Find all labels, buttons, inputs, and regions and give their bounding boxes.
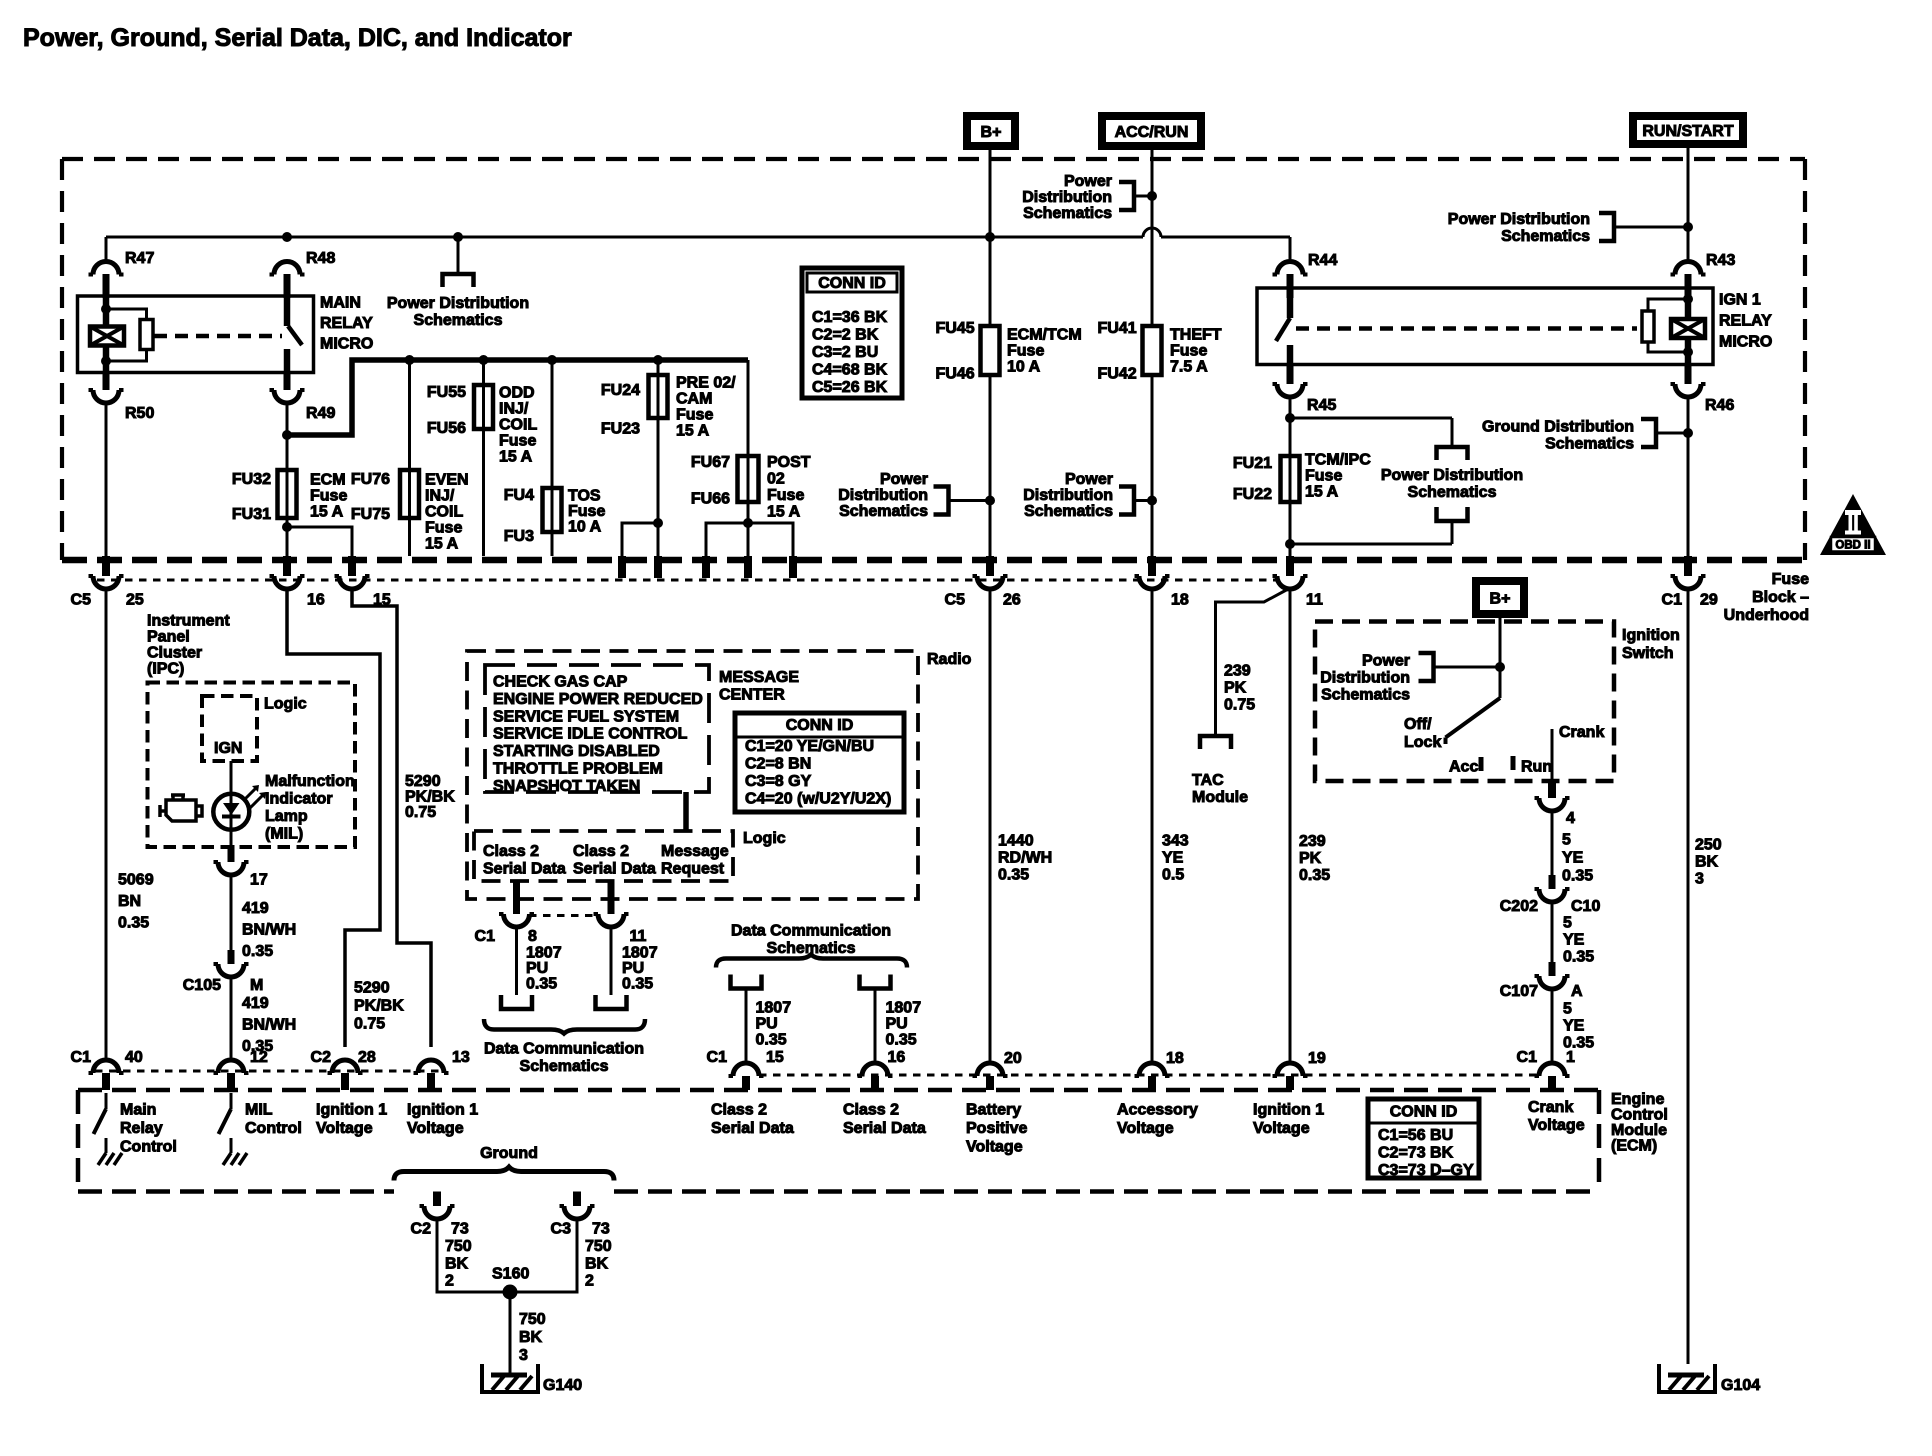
svg-text:YE: YE: [1162, 850, 1184, 867]
svg-text:R44: R44: [1308, 252, 1337, 269]
svg-text:YE: YE: [1563, 1018, 1585, 1035]
svg-text:FU67: FU67: [691, 454, 730, 471]
svg-text:Block –: Block –: [1752, 589, 1809, 606]
svg-text:C4=20 (w/U2Y/U2X): C4=20 (w/U2Y/U2X): [745, 791, 891, 808]
svg-text:Power: Power: [1065, 471, 1113, 488]
svg-text:1: 1: [1566, 1049, 1575, 1066]
svg-text:Cluster: Cluster: [147, 645, 202, 662]
svg-text:Serial Data: Serial Data: [573, 861, 656, 878]
svg-text:15 A: 15 A: [767, 504, 801, 521]
svg-text:C3=73 D–GY: C3=73 D–GY: [1378, 1162, 1474, 1179]
svg-text:Engine: Engine: [1611, 1091, 1664, 1108]
svg-text:THEFT: THEFT: [1170, 327, 1222, 344]
svg-text:Data Communication: Data Communication: [731, 923, 891, 940]
svg-text:FU55: FU55: [427, 384, 466, 401]
svg-text:Voltage: Voltage: [316, 1120, 373, 1137]
svg-text:Ignition 1: Ignition 1: [407, 1102, 478, 1119]
svg-text:FU32: FU32: [232, 471, 271, 488]
svg-text:Schematics: Schematics: [1408, 484, 1497, 501]
svg-text:Serial Data: Serial Data: [711, 1120, 794, 1137]
svg-text:FU75: FU75: [351, 506, 390, 523]
svg-text:2: 2: [445, 1273, 454, 1290]
svg-text:CENTER: CENTER: [719, 687, 785, 704]
svg-text:Control: Control: [1611, 1107, 1668, 1124]
svg-text:FU23: FU23: [601, 421, 640, 438]
svg-text:Schematics: Schematics: [1023, 205, 1112, 222]
svg-text:PU: PU: [756, 1016, 778, 1033]
svg-text:PK/BK: PK/BK: [405, 789, 455, 806]
svg-text:SERVICE IDLE CONTROL: SERVICE IDLE CONTROL: [493, 726, 688, 743]
svg-text:YE: YE: [1563, 932, 1585, 949]
svg-text:3: 3: [1695, 871, 1704, 888]
svg-text:R50: R50: [125, 405, 154, 422]
svg-text:Schematics: Schematics: [1321, 687, 1410, 704]
svg-text:Message: Message: [661, 843, 729, 860]
svg-text:18: 18: [1166, 1050, 1184, 1067]
svg-text:TAC: TAC: [1192, 772, 1224, 789]
svg-text:PK: PK: [1299, 850, 1322, 867]
svg-text:C1: C1: [707, 1049, 728, 1066]
svg-text:Accessory: Accessory: [1117, 1102, 1198, 1119]
svg-text:ACC/RUN: ACC/RUN: [1115, 124, 1189, 141]
svg-text:0.35: 0.35: [756, 1032, 787, 1049]
svg-text:C3: C3: [551, 1221, 572, 1238]
svg-text:C107: C107: [1500, 983, 1538, 1000]
svg-text:FU4: FU4: [504, 487, 534, 504]
svg-text:R48: R48: [306, 250, 335, 267]
svg-text:239: 239: [1224, 663, 1251, 680]
svg-text:Off/: Off/: [1404, 716, 1432, 733]
svg-text:Voltage: Voltage: [1253, 1120, 1310, 1137]
svg-text:R43: R43: [1706, 252, 1735, 269]
svg-text:Power: Power: [1064, 173, 1112, 190]
svg-text:15 A: 15 A: [310, 504, 344, 521]
svg-text:Run: Run: [1521, 759, 1552, 776]
svg-text:C10: C10: [1571, 898, 1600, 915]
svg-text:Control: Control: [120, 1139, 177, 1156]
svg-text:5290: 5290: [405, 773, 441, 790]
svg-text:0.35: 0.35: [118, 915, 149, 932]
svg-text:G104: G104: [1721, 1377, 1760, 1394]
svg-text:0.35: 0.35: [1299, 867, 1330, 884]
svg-text:R49: R49: [306, 405, 335, 422]
svg-text:TOS: TOS: [568, 488, 601, 505]
svg-text:C1: C1: [1662, 592, 1683, 609]
svg-text:4: 4: [1566, 810, 1575, 827]
svg-text:1807: 1807: [886, 1000, 922, 1017]
svg-text:(ECM): (ECM): [1611, 1138, 1657, 1155]
svg-text:C1: C1: [1517, 1049, 1538, 1066]
svg-text:Module: Module: [1192, 789, 1248, 806]
svg-text:Voltage: Voltage: [1117, 1120, 1174, 1137]
svg-text:SERVICE FUEL SYSTEM: SERVICE FUEL SYSTEM: [493, 708, 679, 725]
svg-text:FU56: FU56: [427, 420, 466, 437]
svg-text:5: 5: [1563, 1001, 1572, 1018]
svg-text:INJ/: INJ/: [425, 488, 455, 505]
svg-text:19: 19: [1308, 1050, 1326, 1067]
svg-text:C5: C5: [945, 592, 966, 609]
svg-text:15 A: 15 A: [425, 536, 459, 553]
svg-text:Distribution: Distribution: [838, 487, 928, 504]
svg-text:MICRO: MICRO: [320, 336, 373, 353]
svg-text:12: 12: [250, 1049, 268, 1066]
svg-text:Logic: Logic: [743, 830, 786, 847]
svg-text:750: 750: [519, 1311, 546, 1328]
svg-text:Fuse: Fuse: [568, 503, 605, 520]
svg-text:(IPC): (IPC): [147, 661, 184, 678]
svg-text:MIL: MIL: [245, 1102, 273, 1119]
svg-text:750: 750: [585, 1238, 612, 1255]
svg-text:R47: R47: [125, 250, 154, 267]
svg-text:C1: C1: [71, 1049, 92, 1066]
svg-text:MAIN: MAIN: [320, 295, 361, 312]
svg-text:C5: C5: [71, 592, 92, 609]
svg-text:A: A: [1571, 983, 1583, 1000]
svg-text:RELAY: RELAY: [320, 315, 373, 332]
svg-text:BK: BK: [519, 1329, 543, 1346]
svg-text:Malfunction: Malfunction: [265, 773, 355, 790]
svg-text:FU46: FU46: [935, 366, 974, 383]
svg-text:C2: C2: [411, 1221, 432, 1238]
svg-text:343: 343: [1162, 833, 1189, 850]
svg-text:FU66: FU66: [691, 491, 730, 508]
svg-text:Switch: Switch: [1622, 645, 1674, 662]
svg-text:Fuse: Fuse: [1170, 343, 1207, 360]
svg-text:250: 250: [1695, 837, 1722, 854]
svg-text:YE: YE: [1562, 850, 1584, 867]
svg-text:THROTTLE PROBLEM: THROTTLE PROBLEM: [493, 761, 663, 778]
svg-text:BK: BK: [1695, 854, 1719, 871]
svg-text:G140: G140: [543, 1377, 582, 1394]
svg-text:Schematics: Schematics: [1545, 436, 1634, 453]
svg-text:Fuse: Fuse: [310, 488, 347, 505]
svg-text:Distribution: Distribution: [1023, 487, 1113, 504]
svg-text:CAM: CAM: [676, 391, 712, 408]
svg-text:Lamp: Lamp: [265, 808, 308, 825]
svg-text:Ground Distribution: Ground Distribution: [1482, 419, 1634, 436]
svg-text:C2=2 BK: C2=2 BK: [812, 327, 879, 344]
svg-text:BK: BK: [585, 1255, 609, 1272]
svg-text:1440: 1440: [998, 833, 1034, 850]
svg-text:Ignition 1: Ignition 1: [316, 1102, 387, 1119]
svg-text:RUN/START: RUN/START: [1642, 123, 1733, 140]
svg-text:10 A: 10 A: [1007, 359, 1041, 376]
svg-text:C3=8 GY: C3=8 GY: [745, 773, 812, 790]
svg-text:Power Distribution: Power Distribution: [1448, 211, 1590, 228]
svg-text:R46: R46: [1705, 397, 1734, 414]
svg-text:C1=20 YE/GN/BU: C1=20 YE/GN/BU: [745, 738, 874, 755]
svg-text:40: 40: [125, 1049, 143, 1066]
svg-text:1807: 1807: [756, 1000, 792, 1017]
svg-text:28: 28: [358, 1049, 376, 1066]
svg-text:SNAPSHOT TAKEN: SNAPSHOT TAKEN: [493, 778, 640, 795]
svg-text:(MIL): (MIL): [265, 826, 303, 843]
svg-text:Indicator: Indicator: [265, 791, 333, 808]
svg-text:PK/BK: PK/BK: [354, 998, 404, 1015]
svg-text:FU41: FU41: [1097, 320, 1136, 337]
svg-text:Request: Request: [661, 861, 725, 878]
svg-text:B+: B+: [981, 124, 1002, 141]
svg-text:Positive: Positive: [966, 1120, 1027, 1137]
svg-text:EVEN: EVEN: [425, 472, 469, 489]
svg-text:CONN ID: CONN ID: [818, 275, 886, 292]
svg-text:7.5 A: 7.5 A: [1170, 359, 1208, 376]
svg-text:R45: R45: [1307, 397, 1336, 414]
svg-text:239: 239: [1299, 833, 1326, 850]
svg-text:73: 73: [592, 1221, 610, 1238]
svg-text:Power Distribution: Power Distribution: [387, 295, 529, 312]
svg-text:5: 5: [1563, 915, 1572, 932]
svg-text:18: 18: [1171, 592, 1189, 609]
svg-text:0.35: 0.35: [242, 943, 273, 960]
svg-text:Voltage: Voltage: [966, 1139, 1023, 1156]
svg-text:Ignition 1: Ignition 1: [1253, 1102, 1324, 1119]
svg-text:C202: C202: [1500, 898, 1538, 915]
svg-text:C2=8 BN: C2=8 BN: [745, 756, 811, 773]
svg-text:MESSAGE: MESSAGE: [719, 669, 799, 686]
svg-text:Ignition: Ignition: [1622, 627, 1680, 644]
svg-text:Fuse: Fuse: [425, 520, 462, 537]
svg-text:11: 11: [1306, 592, 1323, 609]
svg-text:Class 2: Class 2: [711, 1102, 767, 1119]
svg-text:C5=26 BK: C5=26 BK: [812, 379, 888, 396]
svg-text:ENGINE POWER REDUCED: ENGINE POWER REDUCED: [493, 691, 703, 708]
svg-text:1807: 1807: [526, 945, 562, 962]
svg-text:Underhood: Underhood: [1724, 607, 1809, 624]
svg-text:20: 20: [1004, 1050, 1022, 1067]
svg-text:BK: BK: [445, 1255, 469, 1272]
svg-text:17: 17: [250, 872, 268, 889]
svg-text:B+: B+: [1490, 591, 1511, 608]
svg-text:5: 5: [1562, 832, 1571, 849]
svg-text:Power: Power: [880, 471, 928, 488]
svg-text:10 A: 10 A: [568, 519, 602, 536]
svg-text:Fuse: Fuse: [1772, 571, 1809, 588]
svg-text:C1=36 BK: C1=36 BK: [812, 309, 888, 326]
svg-text:RD/WH: RD/WH: [998, 850, 1052, 867]
svg-text:ODD: ODD: [499, 385, 535, 402]
svg-text:419: 419: [242, 995, 269, 1012]
svg-text:Fuse: Fuse: [767, 487, 804, 504]
svg-text:Data Communication: Data Communication: [484, 1041, 644, 1058]
svg-text:13: 13: [452, 1049, 470, 1066]
svg-text:Logic: Logic: [264, 696, 307, 713]
svg-text:0.5: 0.5: [1162, 867, 1184, 884]
svg-text:Crank: Crank: [1559, 724, 1604, 741]
svg-text:C2=73 BK: C2=73 BK: [1378, 1145, 1454, 1162]
svg-text:Radio: Radio: [927, 651, 972, 668]
svg-text:0.75: 0.75: [354, 1016, 385, 1033]
svg-text:Serial Data: Serial Data: [843, 1120, 926, 1137]
svg-text:Fuse: Fuse: [499, 433, 536, 450]
svg-text:FU24: FU24: [601, 382, 640, 399]
svg-text:0.35: 0.35: [1562, 868, 1593, 885]
svg-text:Class 2: Class 2: [573, 843, 629, 860]
svg-text:Schematics: Schematics: [520, 1058, 609, 1075]
svg-text:FU22: FU22: [1233, 486, 1272, 503]
svg-text:Panel: Panel: [147, 629, 190, 646]
svg-text:C2: C2: [311, 1049, 332, 1066]
svg-text:PRE 02/: PRE 02/: [676, 375, 736, 392]
svg-text:15 A: 15 A: [1305, 484, 1339, 501]
svg-text:26: 26: [1003, 592, 1021, 609]
svg-text:C1: C1: [475, 928, 496, 945]
svg-text:PK: PK: [1224, 680, 1247, 697]
svg-text:PU: PU: [622, 960, 644, 977]
svg-text:COIL: COIL: [425, 504, 463, 521]
svg-text:MICRO: MICRO: [1719, 334, 1772, 351]
svg-text:Control: Control: [245, 1120, 302, 1137]
svg-text:5290: 5290: [354, 980, 390, 997]
svg-text:TCM/IPC: TCM/IPC: [1305, 452, 1371, 469]
svg-text:25: 25: [126, 592, 144, 609]
svg-text:RELAY: RELAY: [1719, 313, 1772, 330]
svg-text:0.35: 0.35: [526, 976, 557, 993]
svg-text:15: 15: [766, 1049, 784, 1066]
svg-text:Power: Power: [1362, 653, 1410, 670]
svg-text:Class 2: Class 2: [483, 843, 539, 860]
svg-text:FU31: FU31: [232, 506, 271, 523]
svg-text:IGN: IGN: [214, 740, 242, 757]
svg-text:COIL: COIL: [499, 417, 537, 434]
svg-text:FU3: FU3: [504, 528, 534, 545]
svg-text:73: 73: [451, 1221, 469, 1238]
svg-text:OBD II: OBD II: [1835, 540, 1870, 552]
svg-text:11: 11: [630, 928, 647, 945]
svg-text:Lock: Lock: [1404, 734, 1441, 751]
svg-text:750: 750: [445, 1238, 472, 1255]
svg-text:Fuse: Fuse: [676, 407, 713, 424]
svg-text:CHECK GAS CAP: CHECK GAS CAP: [493, 674, 628, 691]
svg-text:0.35: 0.35: [998, 867, 1029, 884]
svg-text:FU76: FU76: [351, 471, 390, 488]
svg-text:BN/WH: BN/WH: [242, 922, 296, 939]
svg-text:Main: Main: [120, 1102, 156, 1119]
svg-text:Relay: Relay: [120, 1120, 163, 1137]
svg-text:8: 8: [528, 928, 537, 945]
svg-text:1807: 1807: [622, 945, 658, 962]
svg-text:CONN ID: CONN ID: [786, 717, 854, 734]
svg-text:Instrument: Instrument: [147, 613, 230, 630]
svg-text:16: 16: [307, 592, 325, 609]
svg-text:Class 2: Class 2: [843, 1102, 899, 1119]
svg-text:M: M: [250, 977, 263, 994]
svg-text:FU45: FU45: [935, 320, 974, 337]
svg-text:2: 2: [585, 1273, 594, 1290]
svg-text:0.35: 0.35: [886, 1032, 917, 1049]
svg-text:INJ/: INJ/: [499, 401, 529, 418]
svg-text:15 A: 15 A: [676, 423, 710, 440]
svg-text:15 A: 15 A: [499, 449, 533, 466]
svg-text:Acc: Acc: [1449, 759, 1478, 776]
svg-text:Module: Module: [1611, 1122, 1667, 1139]
svg-text:Schematics: Schematics: [1024, 503, 1113, 520]
svg-text:Distribution: Distribution: [1320, 670, 1410, 687]
svg-text:Power Distribution: Power Distribution: [1381, 467, 1523, 484]
svg-text:Crank: Crank: [1528, 1099, 1573, 1116]
svg-text:FU21: FU21: [1233, 455, 1272, 472]
svg-text:3: 3: [519, 1347, 528, 1364]
svg-text:0.35: 0.35: [1563, 949, 1594, 966]
svg-text:PU: PU: [886, 1016, 908, 1033]
svg-text:BN: BN: [118, 893, 141, 910]
svg-text:S160: S160: [492, 1266, 529, 1283]
svg-text:Voltage: Voltage: [1528, 1117, 1585, 1134]
svg-text:Fuse: Fuse: [1305, 468, 1342, 485]
svg-text:Serial Data: Serial Data: [483, 861, 566, 878]
svg-text:ECM: ECM: [310, 472, 346, 489]
svg-text:Ground: Ground: [480, 1145, 538, 1162]
svg-text:419: 419: [242, 900, 269, 917]
svg-text:PU: PU: [526, 960, 548, 977]
svg-text:Schematics: Schematics: [839, 503, 928, 520]
svg-text:IGN 1: IGN 1: [1719, 292, 1761, 309]
svg-text:C1=56 BU: C1=56 BU: [1378, 1127, 1453, 1144]
svg-text:5069: 5069: [118, 872, 154, 889]
svg-text:02: 02: [767, 471, 785, 488]
svg-text:16: 16: [888, 1049, 906, 1066]
svg-text:BN/WH: BN/WH: [242, 1017, 296, 1034]
svg-text:Battery: Battery: [966, 1102, 1021, 1119]
svg-text:C4=68 BK: C4=68 BK: [812, 362, 888, 379]
svg-text:0.35: 0.35: [622, 976, 653, 993]
svg-text:POST: POST: [767, 454, 811, 471]
svg-text:0.75: 0.75: [405, 804, 436, 821]
svg-text:Fuse: Fuse: [1007, 343, 1044, 360]
svg-text:STARTING DISABLED: STARTING DISABLED: [493, 743, 660, 760]
svg-text:0.75: 0.75: [1224, 697, 1255, 714]
svg-text:ECM/TCM: ECM/TCM: [1007, 327, 1082, 344]
svg-text:Schematics: Schematics: [1501, 228, 1590, 245]
svg-text:Power, Ground, Serial Data, DI: Power, Ground, Serial Data, DIC, and Ind…: [23, 24, 572, 52]
svg-text:C3=2 BU: C3=2 BU: [812, 344, 878, 361]
svg-text:Distribution: Distribution: [1022, 189, 1112, 206]
svg-text:CONN ID: CONN ID: [1390, 1104, 1458, 1121]
svg-text:FU42: FU42: [1097, 366, 1136, 383]
svg-text:Voltage: Voltage: [407, 1120, 464, 1137]
svg-text:Schematics: Schematics: [414, 312, 503, 329]
svg-text:C105: C105: [183, 977, 221, 994]
svg-text:29: 29: [1700, 592, 1718, 609]
